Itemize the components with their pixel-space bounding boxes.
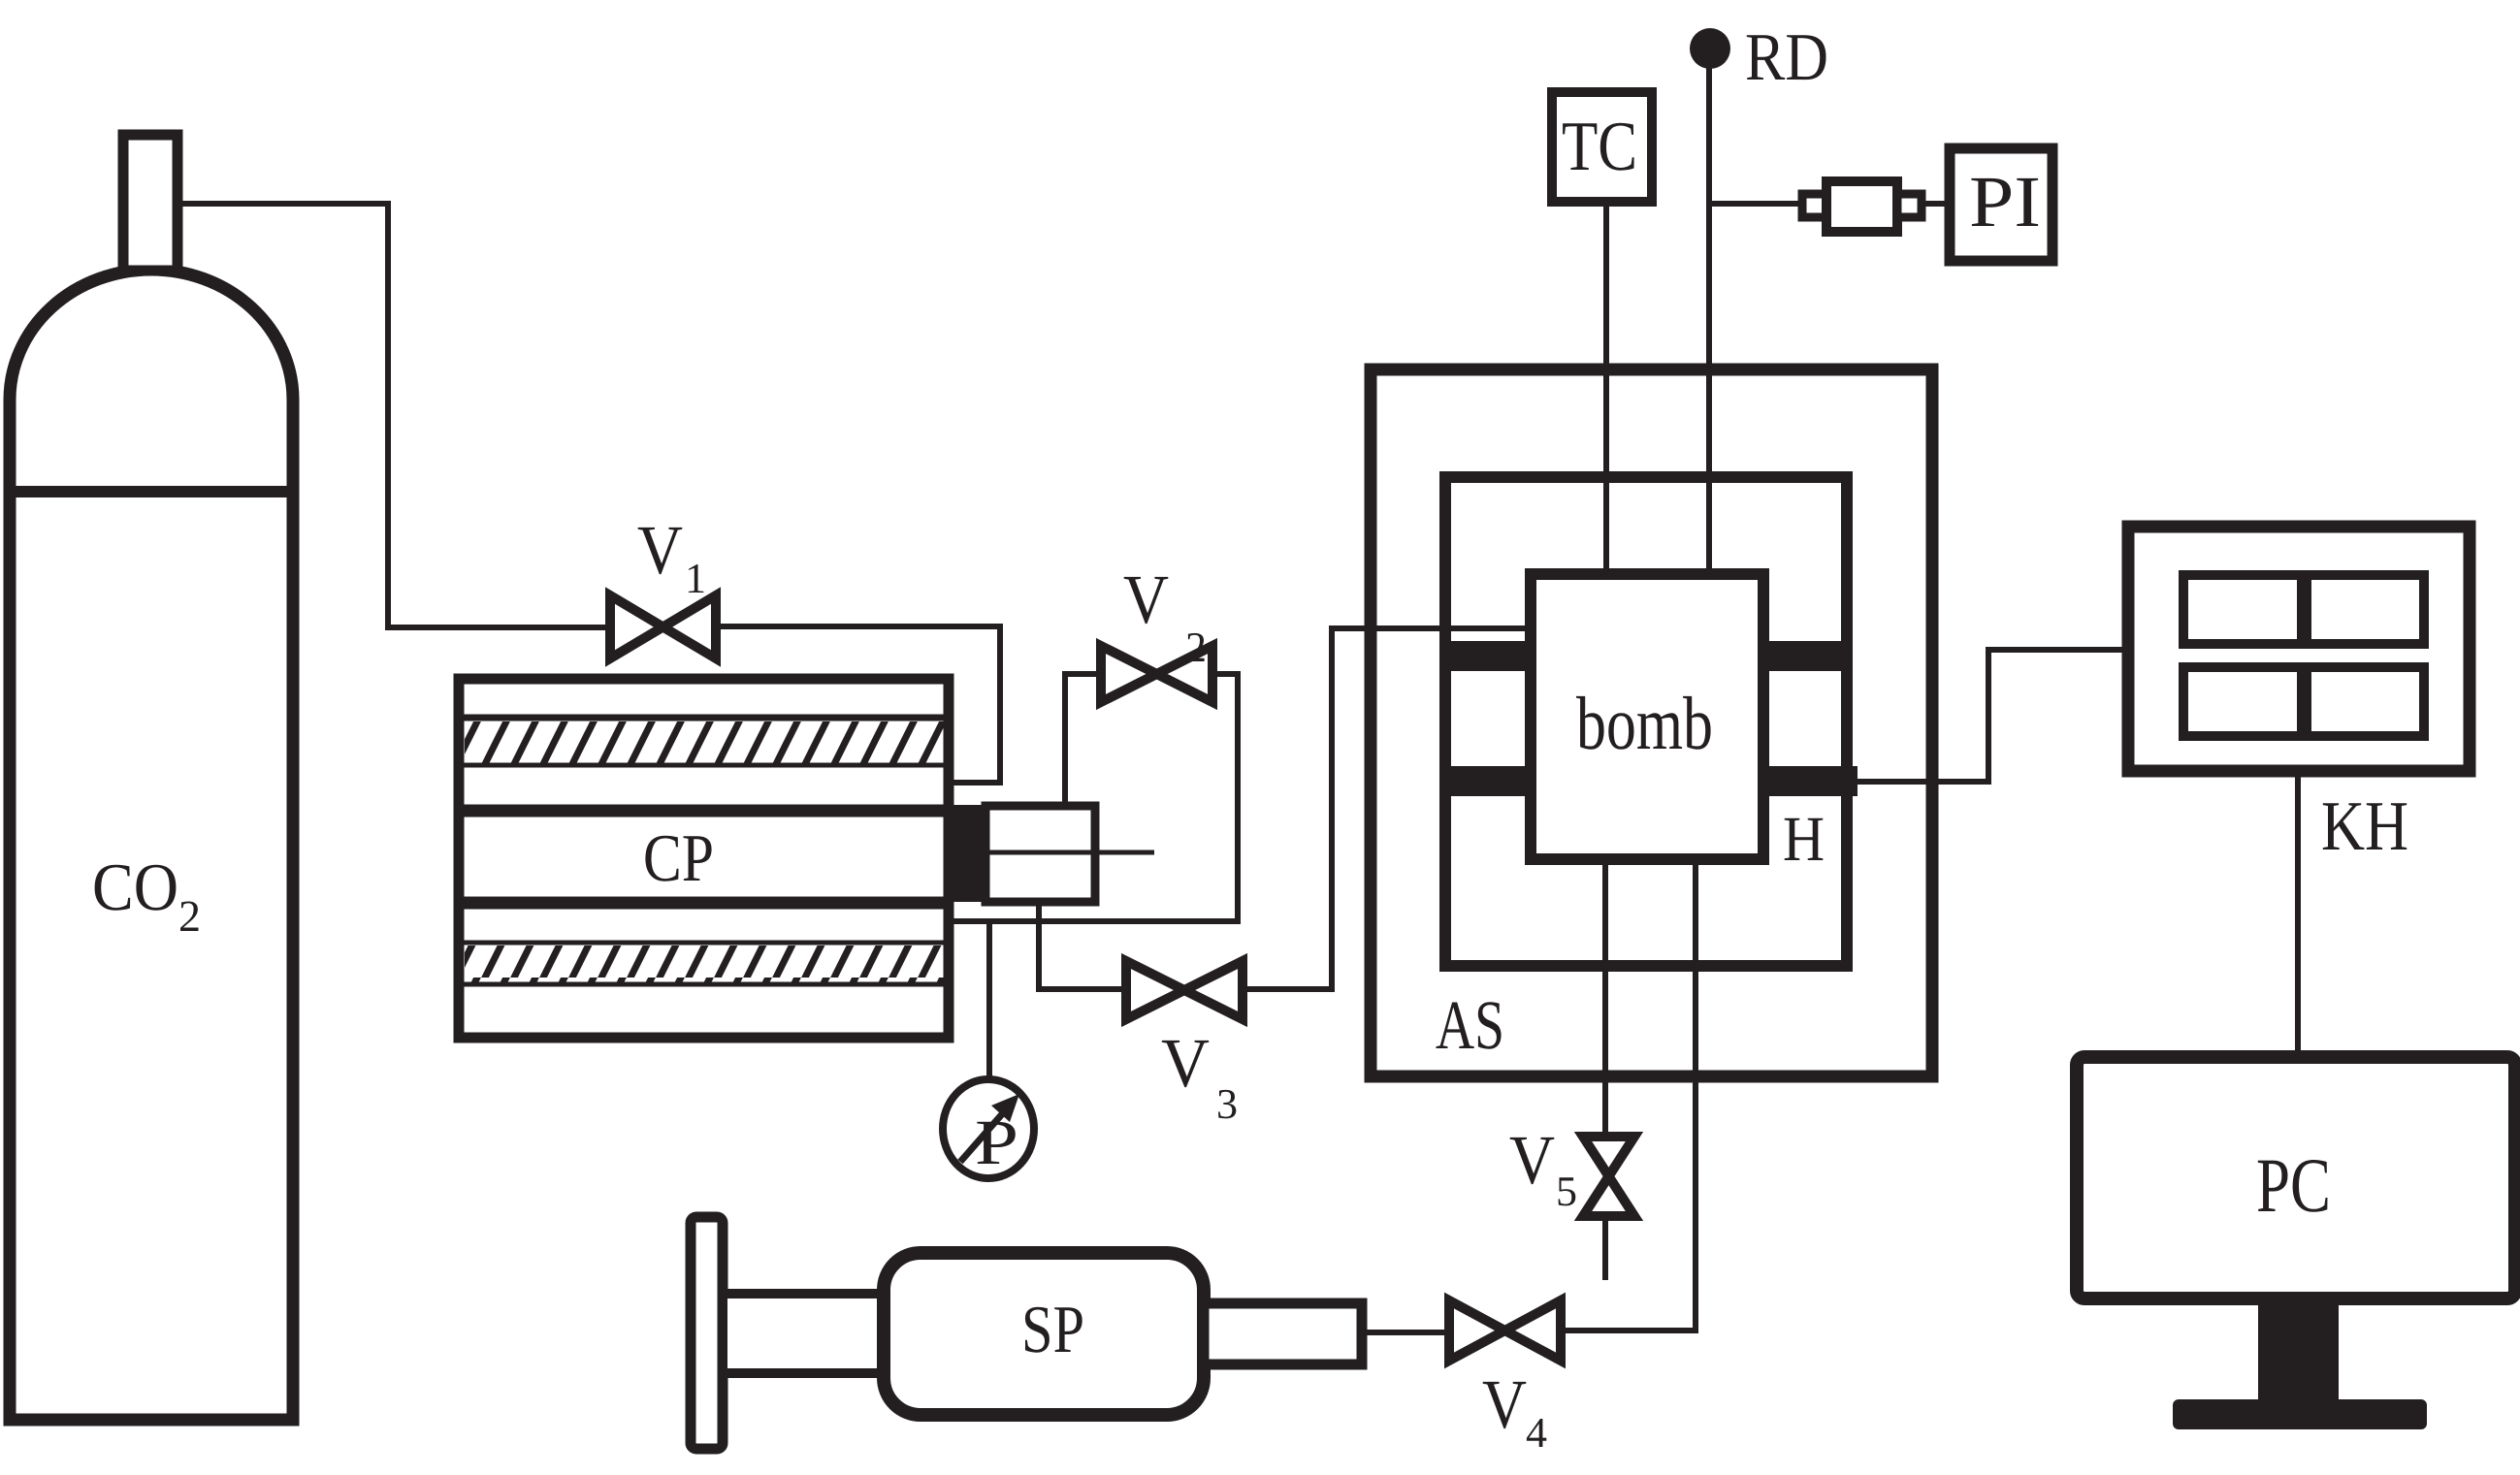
gauge needle xyxy=(960,1106,1009,1162)
bomb vessel xyxy=(1531,574,1763,859)
wire bomb bottom to V4 xyxy=(1565,859,1696,1331)
RD label xyxy=(1747,35,1826,80)
left upper black bar xyxy=(1449,641,1535,671)
SP nozzle xyxy=(1204,1303,1362,1364)
wire V2 to CP lower port xyxy=(951,674,1238,921)
valve V4 xyxy=(1449,1300,1561,1361)
air bath AS box xyxy=(1371,369,1932,1076)
SP barrel xyxy=(884,1253,1204,1415)
CO2 cylinder shoulder line xyxy=(4,486,299,497)
PC label xyxy=(2258,1160,2328,1212)
piston rod xyxy=(1095,850,1154,855)
valve V2 xyxy=(1101,646,1212,702)
wire TC to bomb xyxy=(1603,202,1609,574)
wire V1 to CP top port xyxy=(716,626,1000,783)
V3 label xyxy=(1162,1041,1209,1087)
wire bomb bottom to V5 xyxy=(1602,859,1608,1137)
PI label xyxy=(1971,178,2038,226)
KH label xyxy=(2323,803,2407,850)
CO2 cylinder neck xyxy=(123,135,178,271)
wire to pressure gauge P xyxy=(986,921,992,1082)
TC box xyxy=(1552,92,1652,202)
CP inner line 1 xyxy=(464,715,944,721)
PC monitor stand stem xyxy=(2258,1299,2339,1399)
AS label xyxy=(1437,1002,1502,1048)
V2 label xyxy=(1124,577,1169,624)
wire housing top to V2 xyxy=(1065,674,1101,804)
PC monitor base xyxy=(2173,1399,2427,1429)
wire RD line to pressure transducer xyxy=(1709,201,1802,207)
pressure transducer left nub xyxy=(1802,194,1826,217)
piston rod housing xyxy=(985,806,1095,902)
heater H box xyxy=(1445,477,1847,966)
wire RD to bomb xyxy=(1706,48,1712,574)
CP inner line 4 xyxy=(464,982,944,987)
syringe pump SP plunger handle xyxy=(691,1217,723,1449)
wire housing bottom to V3 xyxy=(1039,903,1122,989)
V5 vent stub xyxy=(1602,1216,1608,1280)
CO2 label xyxy=(95,865,177,911)
TC label xyxy=(1563,123,1634,171)
CP inner line 2 xyxy=(464,763,944,768)
KH box xyxy=(2128,527,2470,771)
valve V3 xyxy=(1126,961,1243,1019)
pressure gauge P circle xyxy=(943,1079,1034,1178)
wire SP to V4 xyxy=(1362,1330,1449,1335)
SP plunger shaft xyxy=(723,1294,884,1373)
piston (black) xyxy=(949,805,985,902)
SP label xyxy=(1025,1307,1082,1353)
CP upper hatch band xyxy=(465,721,944,764)
KH window top-right xyxy=(2307,575,2424,644)
valve V1 xyxy=(610,595,716,658)
bomb label xyxy=(1576,696,1711,750)
CP inner line 3 xyxy=(464,941,944,946)
PI box xyxy=(1950,148,2052,261)
right lower black bar xyxy=(1760,766,1858,796)
valve V5 (vertical) xyxy=(1583,1137,1634,1216)
PC monitor screen xyxy=(2077,1057,2515,1299)
right upper black bar xyxy=(1760,641,1843,671)
wire CO2 tank to V1 xyxy=(182,204,606,627)
gauge needle arrowhead xyxy=(991,1094,1019,1122)
H label xyxy=(1785,818,1824,860)
KH window bottom-right xyxy=(2307,667,2424,736)
rod housing mid line xyxy=(985,850,1095,855)
left lower black bar xyxy=(1449,766,1535,796)
CP piston chamber top thick line xyxy=(464,805,944,818)
CP piston chamber bottom thick line xyxy=(464,897,944,910)
pressure transducer right nub xyxy=(1897,194,1922,217)
CP lower hatch band xyxy=(465,946,944,984)
RD dot xyxy=(1690,28,1730,69)
KH window bottom-left xyxy=(2183,667,2302,736)
CP label xyxy=(645,836,711,882)
wire bomb right to KH xyxy=(1858,650,2128,782)
KH window top-left xyxy=(2183,575,2302,644)
V4 label xyxy=(1483,1382,1527,1428)
wire V3 to bomb left side xyxy=(1243,628,1531,989)
gauge P label xyxy=(977,1122,1016,1164)
V5 label xyxy=(1510,1138,1555,1184)
CO2 cylinder body xyxy=(10,270,293,1420)
wire KH to PC xyxy=(2295,771,2301,1057)
wire transducer to PI xyxy=(1922,201,1950,207)
cylinder pump CP outer box xyxy=(459,679,949,1038)
V1 label xyxy=(638,528,683,574)
pressure transducer body xyxy=(1826,181,1897,232)
